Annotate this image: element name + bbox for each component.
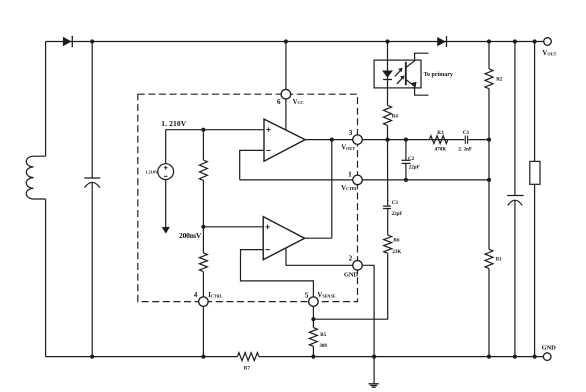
resistor R4 bbox=[384, 105, 392, 125]
svg-text:ICTRL: ICTRL bbox=[208, 292, 222, 299]
resistor divider lower bbox=[199, 253, 207, 272]
wire A1 inverting feedback bbox=[240, 150, 264, 180]
op-amp A2 minus bbox=[265, 249, 269, 251]
voltage source V1 1.210V bbox=[158, 164, 174, 180]
node 200mV line junction bbox=[201, 225, 205, 229]
terminal GND bbox=[543, 353, 551, 361]
ground symbol bbox=[369, 383, 379, 385]
diode D2 bbox=[437, 37, 446, 46]
wire divider upper lead bbox=[202, 130, 204, 160]
wire output tie vertical bbox=[331, 140, 333, 239]
capacitor C2 bbox=[402, 159, 411, 161]
wire output cap vertical lower bbox=[514, 201, 516, 357]
optocoupler light arrow 2 bbox=[397, 78, 402, 84]
optocoupler emitter lead bbox=[406, 80, 429, 96]
resistor divider upper bbox=[199, 160, 207, 180]
wire R4 to VOUT-line bbox=[387, 126, 389, 140]
wire A2 to pin2 GND bbox=[286, 248, 357, 265]
capacitor C3 bbox=[383, 206, 393, 208]
optocoupler U2 box bbox=[374, 60, 421, 88]
svg-text:R5: R5 bbox=[320, 333, 327, 338]
wire VOUT-line to C3 bbox=[387, 140, 389, 206]
capacitor C-out curved plate bbox=[508, 200, 522, 205]
svg-text:R2: R2 bbox=[496, 78, 503, 83]
wire top rail bbox=[46, 41, 544, 43]
svg-text:1. 210V: 1. 210V bbox=[161, 119, 187, 128]
op-amp A2 triangle bbox=[263, 217, 304, 260]
svg-text:22pF: 22pF bbox=[392, 212, 403, 217]
diode D1 bbox=[63, 37, 72, 47]
wire C3 to R6 bbox=[387, 209, 389, 236]
node 1.210V line / divider junction bbox=[201, 128, 205, 132]
svg-text:To primary: To primary bbox=[424, 72, 453, 78]
resistor R2 bbox=[485, 69, 494, 89]
resistor R1 bbox=[485, 249, 494, 268]
wire source bottom lead bbox=[165, 180, 167, 228]
svg-text:VCC: VCC bbox=[293, 99, 304, 106]
pin 6 VCC bbox=[281, 89, 291, 99]
node bottom rail / R1 junction bbox=[487, 355, 491, 359]
pin 1 VCTRL bbox=[353, 175, 363, 185]
wire A2 output horizontal bbox=[305, 237, 332, 239]
IC U1 dashed outline bbox=[138, 94, 358, 301]
wire output cap vertical upper bbox=[514, 42, 516, 196]
node R2-line / VCTRL-line junction bbox=[487, 178, 491, 182]
wire 200mV line bbox=[203, 226, 263, 228]
svg-text:R3: R3 bbox=[437, 130, 444, 136]
node bottom rail / C-out junction bbox=[513, 355, 517, 359]
wire A2 inverting feedback bbox=[241, 250, 314, 302]
node bottom rail / ground junction bbox=[372, 355, 376, 359]
wire C2 upper lead bbox=[405, 140, 407, 161]
wire pin4 to bottom rail bbox=[202, 301, 204, 356]
resistor R7 bbox=[237, 353, 259, 361]
node bottom rail / R5 junction bbox=[311, 355, 315, 359]
svg-text:VCTRL: VCTRL bbox=[341, 185, 358, 192]
node R2-line / VOUT-line junction bbox=[487, 138, 491, 142]
source ground arrow bbox=[162, 227, 170, 234]
wire VCC branch vertical bbox=[285, 42, 287, 131]
wire pin5 down bbox=[312, 301, 314, 327]
op-amp A1 plus bbox=[266, 129, 270, 131]
svg-text:R6: R6 bbox=[393, 239, 400, 244]
svg-text:2. 2nF: 2. 2nF bbox=[458, 147, 472, 153]
pin 5 VSENSE bbox=[309, 297, 319, 307]
resistor R3 bbox=[429, 136, 448, 144]
svg-text:23K: 23K bbox=[392, 250, 401, 255]
load resistor box bbox=[530, 161, 540, 184]
node top rail / C-out junction bbox=[513, 39, 517, 43]
wire source top lead bbox=[165, 130, 167, 164]
svg-text:1.210V: 1.210V bbox=[145, 170, 159, 175]
wire pin2 to ground bbox=[358, 265, 375, 384]
wire left vertical upper (input) bbox=[45, 42, 47, 157]
svg-text:VSENSE: VSENSE bbox=[317, 292, 335, 299]
svg-text:R4: R4 bbox=[392, 115, 399, 120]
node top rail / R2 junction bbox=[487, 39, 491, 43]
node VOUT-line / C2 junction bbox=[404, 138, 408, 142]
svg-text:R7: R7 bbox=[244, 366, 251, 371]
node top rail / C-in junction bbox=[90, 39, 94, 43]
inductor L1 (transformer secondary) bbox=[26, 156, 45, 199]
svg-text:GND: GND bbox=[542, 345, 556, 352]
svg-text:6: 6 bbox=[277, 98, 281, 106]
svg-text:GND: GND bbox=[344, 271, 358, 278]
node VCTRL-line / C2 junction bbox=[404, 178, 408, 182]
op-amp A1 minus bbox=[266, 149, 270, 151]
wire pin5 junction to R6 chain bbox=[313, 253, 387, 319]
node VOUT-line / R4-C3 junction bbox=[385, 138, 389, 142]
capacitor C-in top plate bbox=[84, 177, 100, 179]
svg-text:C3: C3 bbox=[392, 201, 399, 206]
capacitor C-in curved plate bbox=[85, 182, 100, 187]
op-amp A2 plus bbox=[265, 226, 269, 228]
svg-text:2: 2 bbox=[349, 255, 353, 263]
node bottom rail / pin4 junction bbox=[201, 355, 205, 359]
svg-text:1: 1 bbox=[348, 170, 352, 178]
wire divider to pin4 bbox=[202, 272, 204, 302]
svg-text:C1: C1 bbox=[463, 130, 470, 136]
wire opto/LED branch vertical bbox=[387, 42, 389, 106]
svg-text:300: 300 bbox=[319, 344, 327, 349]
wire R2/R1 vertical bbox=[488, 42, 490, 357]
capacitor C-out top plate bbox=[507, 195, 523, 197]
terminal VOUT bbox=[544, 38, 552, 46]
wire bottom rail right of R7 bbox=[259, 356, 544, 358]
svg-text:5: 5 bbox=[305, 292, 309, 300]
capacitor C1 bbox=[464, 135, 468, 145]
node A1 output junction bbox=[330, 138, 334, 142]
svg-text:VOUT: VOUT bbox=[341, 145, 355, 152]
wire bottom rail left of R7 bbox=[46, 356, 238, 358]
svg-text:200mV: 200mV bbox=[179, 231, 202, 240]
wire cap C-in vertical upper bbox=[91, 42, 93, 179]
wire left vertical lower bbox=[45, 199, 47, 357]
node top rail / load junction bbox=[533, 39, 537, 43]
pin 3 VOUT bbox=[353, 135, 363, 145]
svg-text:R1: R1 bbox=[496, 257, 503, 262]
op-amp A1 triangle bbox=[264, 119, 305, 161]
resistor R5 bbox=[309, 328, 317, 347]
node pin5 junction bbox=[311, 317, 315, 321]
node top rail / opto junction bbox=[385, 39, 389, 43]
wire VOUT line bbox=[305, 139, 489, 141]
wire divider middle lead bbox=[202, 180, 204, 253]
optocoupler collector lead bbox=[406, 53, 429, 67]
node top rail / VCC junction bbox=[284, 39, 288, 43]
resistor R6 bbox=[384, 235, 392, 253]
svg-text:22pF: 22pF bbox=[409, 165, 420, 170]
wire load vertical lower bbox=[534, 184, 536, 356]
wire 1.210V line bbox=[166, 129, 264, 131]
svg-text:VOUT: VOUT bbox=[542, 50, 556, 57]
svg-text:C2: C2 bbox=[408, 157, 415, 162]
pin 4 ICTRL bbox=[199, 297, 209, 307]
wire C2 lower lead bbox=[405, 163, 407, 180]
svg-text:470K: 470K bbox=[434, 147, 446, 153]
optocoupler phototransistor base bar bbox=[405, 62, 407, 85]
node bottom rail / C-in junction bbox=[90, 355, 94, 359]
wire load vertical upper bbox=[534, 42, 536, 162]
wire cap C-in vertical lower bbox=[91, 183, 93, 357]
optocoupler LED bbox=[382, 71, 393, 78]
pin 2 GND1 bbox=[353, 261, 363, 271]
wire VCTRL line bbox=[240, 179, 489, 181]
optocoupler light arrow 1 bbox=[395, 71, 400, 77]
svg-text:4: 4 bbox=[194, 291, 198, 299]
node bottom rail / load junction bbox=[533, 355, 537, 359]
svg-text:3: 3 bbox=[349, 129, 353, 137]
wire R5 to bottom rail bbox=[312, 346, 314, 356]
